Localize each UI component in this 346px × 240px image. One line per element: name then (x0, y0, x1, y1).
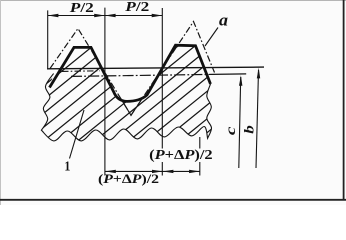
svg-text:(P+ΔP)/2: (P+ΔP)/2 (98, 171, 159, 186)
svg-text:1: 1 (64, 160, 70, 175)
svg-text:(P+ΔP)/2: (P+ΔP)/2 (149, 147, 213, 162)
svg-text:c: c (223, 127, 238, 136)
svg-text:P/2: P/2 (125, 0, 149, 15)
svg-text:P/2: P/2 (70, 1, 94, 16)
svg-text:a: a (219, 10, 228, 29)
svg-text:b: b (243, 125, 258, 134)
